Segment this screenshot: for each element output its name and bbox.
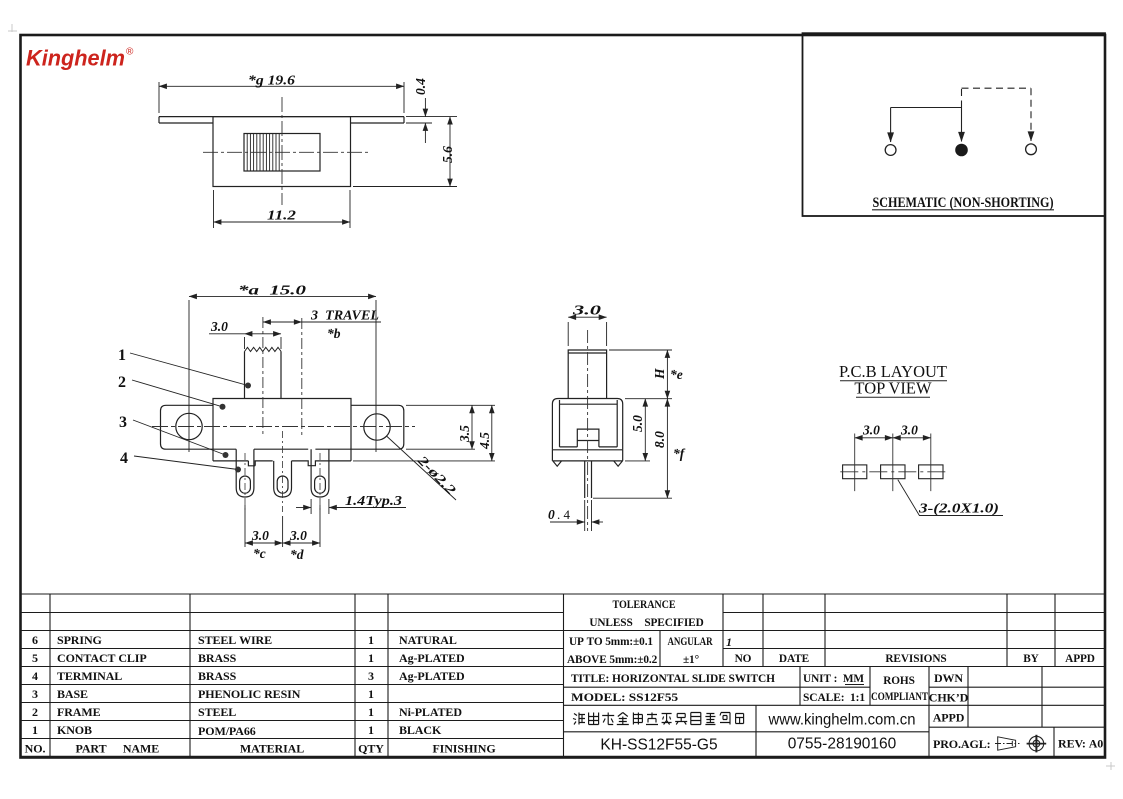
parts list header row (25, 742, 496, 756)
dimension *g 19.6 (159, 82, 404, 113)
dimension 3.0 knob width (209, 334, 281, 349)
svg-text:2: 2 (32, 705, 38, 719)
svg-text:SPECIFIED: SPECIFIED (644, 617, 703, 629)
parts list column lines (50, 594, 564, 757)
svg-text:DATE: DATE (779, 653, 809, 665)
svg-text:*g 19.6: *g 19.6 (248, 73, 295, 88)
front view right ear hole (2-eq2.2) (364, 414, 390, 440)
front view terminal 2 (center) (274, 461, 292, 497)
schematic common terminal (center, filled) (956, 144, 968, 156)
parts list row 2 FRAME (32, 705, 462, 719)
front view terminal 3 hole (315, 476, 326, 493)
dimension 3.5 ear height (406, 405, 495, 449)
title block column lines (756, 667, 1054, 758)
svg-text:KH-SS12F55-G5: KH-SS12F55-G5 (600, 737, 717, 754)
schematic dashed wire center-to-right (alternate position) (962, 88, 1032, 141)
front view terminal 3 (311, 449, 329, 497)
dimension 3.0 stem width (568, 317, 606, 346)
svg-text:1: 1 (726, 635, 732, 649)
svg-text:BLACK: BLACK (399, 723, 442, 737)
side view body outline (552, 399, 622, 450)
svg-text:3 TRAVEL: 3 TRAVEL (310, 308, 379, 323)
part leader 2 (frame) (118, 374, 226, 410)
front view left ear hole (176, 413, 202, 439)
svg-text:UNIT : MM: UNIT : MM (803, 671, 864, 685)
svg-text:STEEL: STEEL (198, 705, 236, 719)
svg-text:3.0: 3.0 (251, 528, 269, 543)
svg-text:2: 2 (118, 374, 126, 391)
front view left mounting ear (161, 405, 214, 449)
svg-text:3.0: 3.0 (571, 303, 601, 318)
svg-text:1: 1 (368, 651, 374, 665)
svg-text:NO.: NO. (25, 742, 46, 756)
svg-text:TITLE: HORIZONTAL SLIDE SWITCH: TITLE: HORIZONTAL SLIDE SWITCH (571, 671, 776, 685)
schematic box frame (803, 33, 1106, 216)
pcb pad 1 (843, 465, 867, 479)
svg-text:POM/PA66: POM/PA66 (198, 724, 256, 738)
svg-text:TERMINAL: TERMINAL (57, 669, 122, 683)
svg-text:3: 3 (119, 414, 127, 431)
part leader 4 (terminal) (120, 450, 241, 473)
svg-text:3.0: 3.0 (289, 528, 307, 543)
side view base band (552, 450, 622, 461)
svg-text:STEEL WIRE: STEEL WIRE (198, 633, 272, 647)
title block row lines (564, 687, 1106, 732)
svg-text:REV: A0: REV: A0 (1058, 737, 1103, 751)
side view vertical centerline (587, 330, 589, 531)
side view left foot (553, 461, 562, 466)
dimension 8.0 *f overall height (593, 399, 672, 499)
corner crop mark bottom-right (1106, 762, 1115, 770)
tolerance block column lines (660, 594, 1055, 667)
svg-text:1: 1 (368, 687, 374, 701)
svg-text:DWN: DWN (934, 671, 963, 685)
svg-text:UP TO 5mm:±0.1: UP TO 5mm:±0.1 (569, 636, 653, 648)
svg-text:H: H (652, 368, 667, 380)
top view body rectangle (213, 117, 351, 187)
svg-text:COMPLIANT: COMPLIANT (871, 691, 928, 703)
first-angle projection cone symbol (995, 737, 1020, 750)
revisions header row (735, 653, 1095, 665)
projection target symbol (1027, 735, 1047, 753)
schematic solid wire left-to-center (891, 108, 962, 143)
svg-text:Ag-PLATED: Ag-PLATED (399, 651, 465, 665)
Kinghelm logo (26, 45, 134, 70)
company name (Chinese) stylized glyphs (573, 713, 744, 725)
svg-text:SCHEMATIC (NON-SHORTING): SCHEMATIC (NON-SHORTING) (873, 195, 1054, 211)
svg-text:PART: PART (76, 742, 107, 756)
svg-text:3.0: 3.0 (900, 423, 918, 438)
svg-text:5.6: 5.6 (440, 146, 455, 163)
angular tolerance cell (668, 636, 714, 666)
side view right foot (614, 461, 623, 466)
side view terminal pin (585, 461, 592, 498)
svg-text:NATURAL: NATURAL (399, 633, 457, 647)
parts list row 4 TERMINAL (32, 669, 465, 683)
svg-text:FINISHING: FINISHING (432, 742, 495, 756)
svg-text:ANGULAR: ANGULAR (668, 636, 714, 648)
dimension 2-eq2.2 hole callout (387, 436, 457, 500)
dimension 0.4 pin width (550, 500, 603, 531)
front view travel end centerline (301, 318, 303, 435)
svg-text:UNLESS: UNLESS (589, 617, 632, 629)
front view right mounting ear (351, 405, 404, 449)
svg-text:5.0: 5.0 (630, 415, 645, 432)
svg-text:BASE: BASE (57, 687, 88, 701)
svg-text:SCALE: 1:1: SCALE: 1:1 (803, 690, 865, 704)
dimension 5.0 body height (625, 399, 650, 461)
svg-text:FRAME: FRAME (57, 705, 101, 719)
svg-text:. 4: . 4 (557, 507, 571, 522)
svg-text:CHK’D: CHK’D (929, 691, 969, 705)
dimension H *e stem height (609, 350, 672, 399)
table row lines left region (20, 613, 564, 739)
pcb pad 2 (881, 465, 905, 479)
front view knob position centerline (262, 317, 264, 435)
dimension 3 TRAVEL *b (263, 321, 302, 323)
svg-text:NAME: NAME (123, 742, 159, 756)
part leader 1 (knob) (118, 347, 251, 389)
pcb dimension 3.0 3.0 (855, 437, 893, 439)
svg-text:SPRING: SPRING (57, 633, 102, 647)
side view body/base parting line (552, 449, 622, 451)
svg-text:0: 0 (548, 507, 555, 522)
svg-text:0.4: 0.4 (413, 78, 428, 95)
side view inner wall (560, 400, 618, 447)
svg-text:3: 3 (368, 669, 374, 683)
corner crop mark top-left (8, 24, 17, 32)
side view contact slot (577, 429, 599, 447)
dimension 1.4Typ.3 terminal width (296, 499, 406, 514)
front view frame body (213, 399, 351, 450)
parts list row 6 SPRING (32, 633, 457, 647)
svg-text:8.0: 8.0 (652, 431, 667, 448)
dimension 0.4 flange thickness (406, 98, 432, 143)
svg-text:®: ® (126, 47, 134, 58)
svg-text:*b: *b (327, 326, 341, 341)
table bottom border (20, 756, 1105, 758)
svg-text:3.0: 3.0 (210, 319, 228, 334)
front view terminal centerlines (245, 431, 320, 512)
svg-text:4: 4 (120, 450, 128, 467)
svg-text:±1°: ±1° (683, 654, 699, 666)
svg-text:TOLERANCE: TOLERANCE (613, 599, 676, 611)
svg-text:*d: *d (290, 547, 304, 562)
svg-text:REVISIONS: REVISIONS (885, 653, 946, 665)
table row lines right region (564, 613, 1106, 667)
svg-text:1: 1 (32, 723, 38, 737)
schematic terminal 3 (right, open) (1026, 144, 1037, 155)
svg-text:1: 1 (368, 633, 374, 647)
pcb horizontal centerline (840, 471, 947, 473)
svg-text:11.2: 11.2 (267, 208, 296, 223)
svg-text:3.5: 3.5 (457, 425, 472, 443)
front view base sides and bottom (213, 449, 351, 466)
svg-text:*c: *c (253, 546, 266, 561)
front view knob stem with break-line top (245, 352, 282, 399)
side view inner floor (560, 446, 618, 448)
pcb pad centerlines vertical (855, 434, 931, 492)
side view knob stem (568, 350, 606, 399)
svg-text:ROHS: ROHS (883, 675, 915, 687)
front view frame bottom edge (213, 448, 351, 450)
svg-text:MODEL: SS12F55: MODEL: SS12F55 (571, 690, 678, 704)
svg-text:NO: NO (735, 653, 752, 665)
schematic terminal 1 (left, open) (885, 145, 896, 156)
svg-text:ABOVE 5mm:±0.2: ABOVE 5mm:±0.2 (567, 654, 658, 666)
svg-text:QTY: QTY (358, 742, 384, 756)
svg-text:KNOB: KNOB (57, 723, 92, 737)
svg-text:4.5: 4.5 (477, 432, 492, 450)
svg-text:*a 15.0: *a 15.0 (238, 283, 306, 298)
dimension 5.6 body height (353, 117, 457, 187)
svg-text:6: 6 (32, 633, 38, 647)
svg-text:3.0: 3.0 (862, 423, 880, 438)
front view terminal 2 hole (277, 476, 288, 493)
front view terminal 1 hole (240, 476, 251, 493)
front view terminal 1 (236, 449, 254, 497)
svg-text:www.kinghelm.com.cn: www.kinghelm.com.cn (768, 712, 916, 729)
dimension 3.0 *c terminal pitch (245, 505, 320, 547)
svg-text:APPD: APPD (933, 711, 965, 725)
top view knob serration hatch (247, 134, 279, 172)
tolerance header cell (589, 599, 703, 629)
part leader 3 (base) (119, 414, 229, 458)
svg-text:*e: *e (670, 367, 683, 382)
svg-text:0755-28190160: 0755-28190160 (788, 736, 897, 753)
pcb pad 3 (919, 465, 943, 479)
svg-text:CONTACT CLIP: CONTACT CLIP (57, 651, 147, 665)
svg-text:2-ø2.2: 2-ø2.2 (414, 452, 459, 498)
parts list row 3 BASE (32, 687, 374, 701)
dimension 4.5 overall height (353, 405, 495, 461)
top view horizontal centerline (203, 151, 369, 153)
dimension *a 15.0 (189, 296, 376, 452)
front view horizontal centerline (152, 426, 415, 428)
svg-text:TOP VIEW: TOP VIEW (854, 379, 932, 398)
svg-text:Ni-PLATED: Ni-PLATED (399, 705, 462, 719)
svg-text:4: 4 (32, 669, 38, 683)
parts list row 5 CONTACT CLIP (32, 651, 465, 665)
pcb hole size callout 3-(2.0X1.0) (898, 480, 1003, 516)
svg-text:PHENOLIC RESIN: PHENOLIC RESIN (198, 687, 301, 701)
dimension 3.0 *d terminal pitch (283, 542, 320, 544)
svg-text:3-(2.0X1.0): 3-(2.0X1.0) (918, 501, 999, 516)
tolerance values cell (567, 636, 658, 666)
top view knob rectangle (244, 134, 320, 172)
svg-text:BRASS: BRASS (198, 669, 237, 683)
svg-text:1: 1 (118, 347, 126, 364)
svg-text:BRASS: BRASS (198, 651, 237, 665)
svg-text:Kinghelm: Kinghelm (26, 45, 125, 70)
parts list row 1 KNOB (32, 723, 442, 738)
table top border (20, 593, 1105, 595)
svg-text:1: 1 (368, 705, 374, 719)
svg-text:3: 3 (32, 687, 38, 701)
top view flange (frame wings) (159, 117, 404, 123)
svg-text:1.4Typ.3: 1.4Typ.3 (345, 493, 402, 508)
svg-text:*f: *f (673, 446, 686, 461)
svg-text:PRO.AGL:: PRO.AGL: (933, 737, 991, 751)
svg-text:BY: BY (1023, 653, 1039, 665)
svg-text:APPD: APPD (1065, 653, 1095, 665)
svg-text:5: 5 (32, 651, 38, 665)
svg-text:Ag-PLATED: Ag-PLATED (399, 669, 465, 683)
svg-text:MATERIAL: MATERIAL (240, 742, 304, 756)
top view vertical centerline (281, 97, 283, 205)
dimension 11.2 body width (214, 190, 351, 228)
svg-text:1: 1 (368, 723, 374, 737)
